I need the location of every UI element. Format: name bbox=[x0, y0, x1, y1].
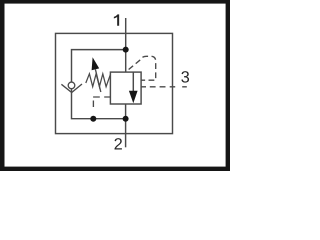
wire port 2 vertical line bbox=[125, 119, 127, 148]
node junction dot top bbox=[123, 47, 129, 53]
adjustment arrow shaft bbox=[95, 69, 100, 92]
wire check-valve bypass loop bbox=[72, 50, 126, 119]
label port 1 bbox=[114, 14, 119, 25]
label port 3 bbox=[181, 71, 189, 83]
node junction dot bottom bbox=[123, 116, 129, 122]
spring zigzag bbox=[86, 74, 111, 87]
outer envelope box (manifold boundary) bbox=[56, 33, 173, 133]
valve flow arrow shaft bbox=[132, 72, 134, 92]
valve body square bbox=[110, 72, 141, 104]
node junction dot drain bbox=[90, 116, 96, 122]
dashed pilot line to port 3 bbox=[141, 86, 187, 88]
frame top bbox=[0, 0, 230, 4]
check valve ball bbox=[68, 82, 75, 89]
valve flow arrowhead (down) bbox=[129, 91, 138, 104]
frame left bbox=[0, 0, 5, 171]
label port 2 bbox=[115, 138, 122, 149]
frame right bbox=[226, 0, 230, 171]
wire port 1 vertical line bbox=[125, 18, 127, 72]
dashed drain line vertical bbox=[92, 101, 94, 108]
dashed pilot loop bbox=[126, 56, 156, 80]
wire valve outlet drop line bbox=[125, 104, 127, 119]
adjustment arrowhead bbox=[92, 57, 100, 70]
dashed drain line horizontal bbox=[93, 96, 110, 98]
frame bottom bbox=[0, 167, 230, 171]
check valve seat V bbox=[61, 84, 82, 93]
